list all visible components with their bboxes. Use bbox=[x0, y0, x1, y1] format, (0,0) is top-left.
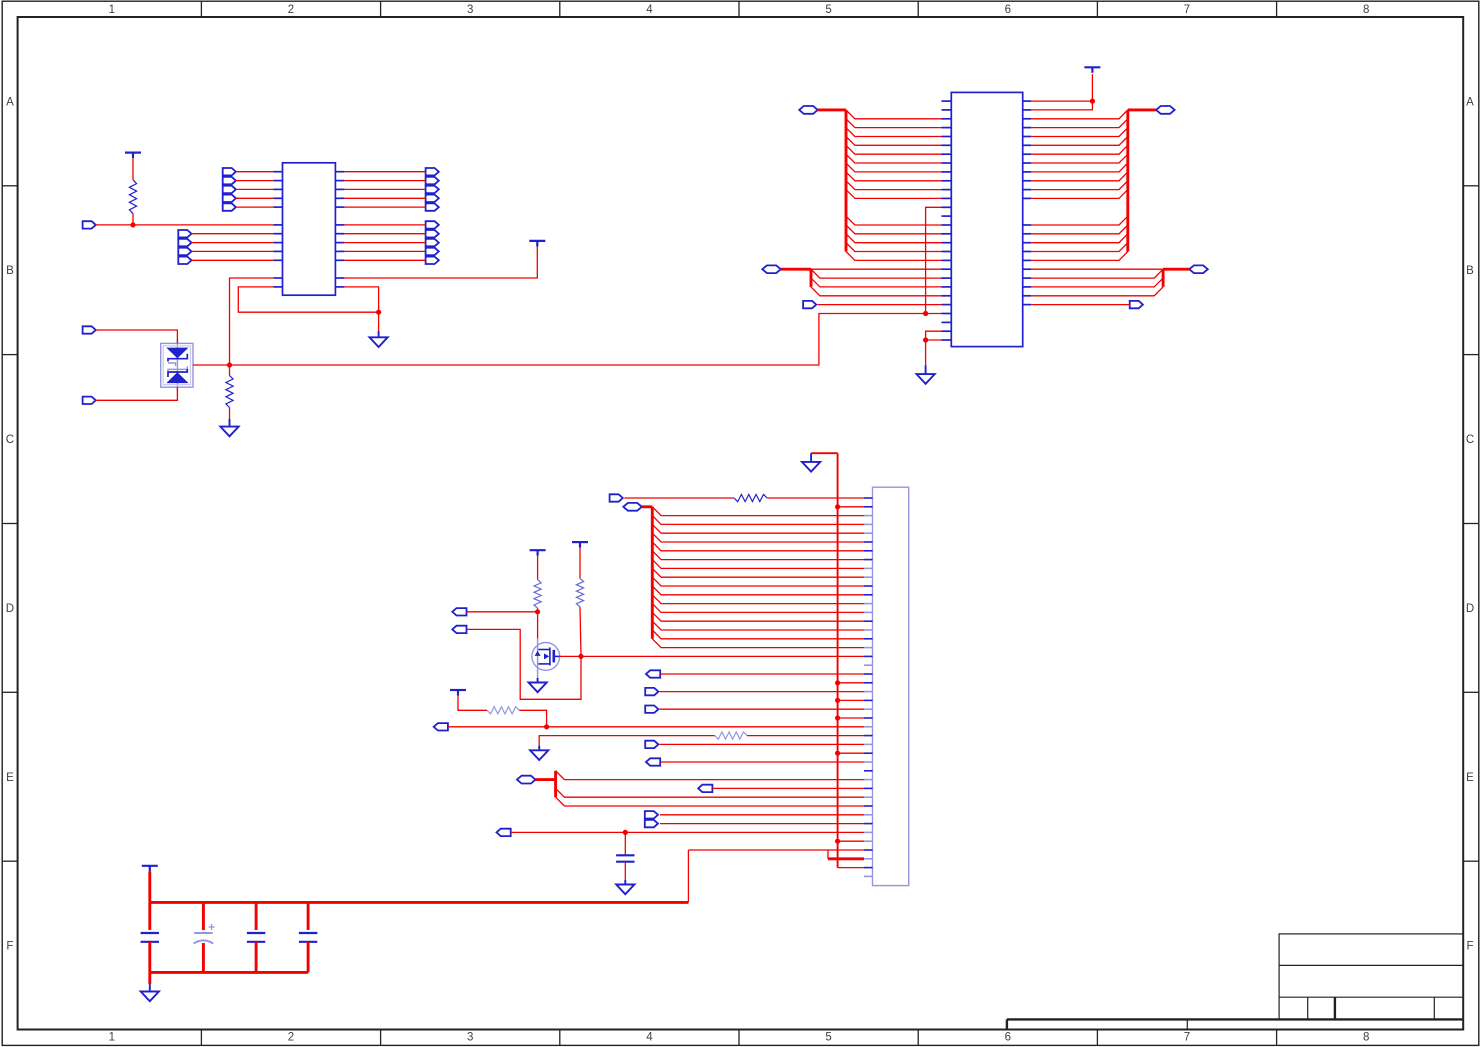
wire bbox=[652, 568, 864, 577]
wire bbox=[811, 278, 942, 287]
wire bbox=[660, 673, 864, 675]
U2 pin stubs bbox=[942, 101, 1032, 340]
svg-text:4: 4 bbox=[646, 1031, 653, 1043]
svg-text:F: F bbox=[1466, 941, 1473, 953]
wire bbox=[652, 639, 864, 648]
resistor R1 bbox=[129, 180, 136, 214]
output port bbox=[426, 195, 439, 202]
output port bbox=[646, 758, 660, 765]
output port bbox=[426, 168, 439, 175]
wire bbox=[767, 497, 864, 499]
wire bbox=[846, 181, 942, 190]
wire (long net to U2) bbox=[193, 314, 942, 366]
ground bbox=[530, 746, 548, 760]
ground bbox=[220, 419, 238, 436]
svg-text:D: D bbox=[1466, 603, 1474, 615]
input port bbox=[223, 177, 236, 184]
wire bbox=[838, 717, 864, 719]
wire bbox=[652, 507, 864, 516]
svg-text:6: 6 bbox=[1005, 1031, 1011, 1043]
wire bbox=[652, 595, 864, 604]
power symbol bbox=[450, 690, 466, 696]
wire (power bus) bbox=[150, 901, 689, 904]
row tick marks bbox=[2, 186, 1479, 861]
wire bbox=[712, 787, 864, 789]
wire bus (right bundle) bbox=[1128, 110, 1156, 252]
wire bbox=[846, 145, 942, 154]
svg-text:B: B bbox=[6, 265, 14, 277]
wire bbox=[96, 330, 178, 343]
wire bbox=[838, 506, 864, 508]
wire bbox=[652, 612, 864, 621]
wire bbox=[519, 710, 546, 727]
svg-text:6: 6 bbox=[1005, 4, 1011, 16]
output port bbox=[497, 829, 511, 836]
wire bbox=[747, 735, 864, 737]
input port bbox=[178, 239, 191, 246]
junction bbox=[544, 724, 549, 729]
output port bbox=[426, 221, 439, 228]
wire bbox=[132, 158, 134, 180]
wire bbox=[624, 497, 734, 499]
wire bbox=[192, 242, 274, 244]
wire bbox=[652, 533, 864, 542]
wire bbox=[687, 850, 689, 902]
capacitor C4 bbox=[299, 933, 317, 942]
svg-text:E: E bbox=[6, 772, 14, 784]
wire bbox=[96, 224, 274, 226]
U1 pin stubs bbox=[274, 172, 345, 287]
svg-text:3: 3 bbox=[467, 1031, 473, 1043]
svg-text:F: F bbox=[6, 941, 13, 953]
wire bus (vertical net) bbox=[837, 453, 839, 867]
wire (bus segment) bbox=[828, 857, 864, 860]
junction bbox=[1090, 99, 1095, 104]
svg-text:D: D bbox=[6, 603, 14, 615]
svg-text:8: 8 bbox=[1363, 4, 1369, 16]
input port bbox=[83, 397, 96, 404]
junction bbox=[578, 654, 583, 659]
wire bbox=[1031, 252, 1128, 261]
wire bbox=[838, 699, 864, 701]
power symbol bbox=[142, 866, 158, 872]
wire bus (left bundle) bbox=[818, 110, 846, 252]
wire bbox=[660, 743, 864, 745]
wire bbox=[846, 190, 942, 199]
bidir port bbox=[623, 503, 642, 511]
wire bbox=[624, 832, 626, 855]
input port bbox=[803, 301, 816, 308]
wire bbox=[96, 387, 178, 400]
capacitor C3 bbox=[247, 933, 265, 942]
wire bbox=[229, 408, 231, 420]
power symbol bbox=[530, 550, 546, 556]
wire bbox=[1031, 287, 1163, 296]
wire bbox=[467, 629, 582, 699]
output port bbox=[426, 239, 439, 246]
wire bbox=[236, 188, 274, 190]
output port bbox=[646, 670, 660, 677]
wire bbox=[344, 250, 425, 252]
wire bbox=[467, 611, 538, 613]
wire bus bbox=[810, 269, 813, 287]
resistor R5 bbox=[487, 707, 519, 714]
wire bbox=[236, 171, 274, 173]
wire bbox=[580, 607, 581, 657]
svg-text:4: 4 bbox=[646, 4, 653, 16]
wire bbox=[1031, 100, 1092, 102]
wire bbox=[1031, 304, 1129, 306]
wire bbox=[838, 840, 864, 842]
bidir port bbox=[1156, 106, 1175, 114]
input port bbox=[645, 706, 658, 713]
J1 pin stubs bbox=[864, 498, 873, 876]
wire bbox=[846, 216, 942, 225]
wire bbox=[537, 608, 539, 612]
junction bbox=[227, 362, 232, 367]
wire bbox=[537, 556, 539, 580]
wire bbox=[652, 551, 864, 560]
wire bbox=[846, 119, 942, 128]
IC U2 bbox=[951, 92, 1022, 346]
bidir port bbox=[1189, 265, 1208, 273]
power symbol bbox=[125, 153, 141, 159]
wire bbox=[926, 207, 942, 313]
wire bbox=[652, 621, 864, 630]
input port bbox=[610, 494, 623, 501]
svg-text:7: 7 bbox=[1184, 1031, 1190, 1043]
output port bbox=[1130, 301, 1143, 308]
wire bbox=[846, 172, 942, 181]
wire bbox=[1031, 190, 1128, 199]
wire bbox=[624, 862, 626, 881]
output port bbox=[426, 230, 439, 237]
bidir port bbox=[799, 106, 818, 114]
output port bbox=[426, 257, 439, 264]
wire bbox=[660, 708, 864, 710]
wire bbox=[652, 542, 864, 551]
wire bbox=[660, 761, 864, 763]
wire bbox=[344, 233, 425, 235]
wire bbox=[652, 524, 864, 533]
wire bbox=[132, 214, 134, 225]
wire bbox=[449, 726, 864, 728]
wire bbox=[818, 304, 942, 306]
wire bbox=[846, 128, 942, 137]
wire bbox=[556, 788, 864, 797]
wire bbox=[236, 180, 274, 182]
svg-text:2: 2 bbox=[288, 1031, 294, 1043]
svg-text:A: A bbox=[6, 96, 14, 108]
power symbol bbox=[1084, 67, 1100, 73]
svg-text:C: C bbox=[6, 434, 14, 446]
wire bbox=[846, 137, 942, 146]
junction bbox=[835, 839, 840, 844]
wire (ground bus) bbox=[150, 971, 308, 974]
wire bbox=[660, 691, 864, 693]
column tick marks top bbox=[201, 1, 1276, 1045]
transistor Q1 (MOSFET) bbox=[532, 639, 560, 680]
junction bbox=[835, 680, 840, 685]
wire bbox=[1031, 225, 1128, 234]
output port bbox=[426, 203, 439, 210]
output port bbox=[698, 785, 712, 792]
wire bbox=[811, 452, 838, 454]
wire bbox=[1091, 74, 1093, 101]
wire bbox=[344, 197, 425, 199]
junction bbox=[623, 830, 628, 835]
resistor R7 bbox=[734, 494, 767, 501]
wire bbox=[458, 696, 487, 711]
wire bbox=[828, 849, 864, 851]
wire bbox=[1031, 110, 1128, 119]
wire bbox=[344, 287, 378, 312]
wire bbox=[811, 268, 942, 270]
resistor R3 bbox=[534, 580, 541, 609]
svg-text:5: 5 bbox=[825, 4, 831, 16]
wire bbox=[202, 902, 205, 930]
wire bbox=[192, 259, 274, 261]
wire bbox=[1031, 243, 1128, 252]
input port bbox=[223, 186, 236, 193]
output port bbox=[426, 248, 439, 255]
wire bbox=[838, 682, 864, 684]
wire bbox=[660, 814, 864, 816]
wire bbox=[229, 365, 231, 375]
wire bbox=[846, 234, 942, 243]
ground bbox=[141, 984, 159, 1001]
wire bbox=[688, 850, 828, 859]
wire bbox=[236, 206, 274, 208]
wire bbox=[1031, 137, 1128, 146]
capacitor C1 bbox=[141, 933, 159, 942]
wire bbox=[1031, 119, 1128, 128]
ground bbox=[370, 331, 388, 347]
wire bbox=[926, 331, 942, 340]
wire bus bbox=[1162, 269, 1165, 287]
power symbol bbox=[529, 241, 545, 247]
wire bbox=[1031, 181, 1128, 190]
output port bbox=[426, 186, 439, 193]
wire bbox=[556, 771, 864, 780]
junction bbox=[835, 751, 840, 756]
svg-text:2: 2 bbox=[288, 4, 294, 16]
wire bbox=[238, 287, 378, 312]
svg-text:7: 7 bbox=[1184, 4, 1190, 16]
wire bbox=[537, 612, 539, 639]
wire bbox=[148, 942, 151, 973]
svg-text:1: 1 bbox=[109, 1031, 115, 1043]
junction bbox=[835, 698, 840, 703]
wire bbox=[838, 867, 864, 869]
wire bbox=[344, 171, 425, 173]
resistor R2 bbox=[226, 375, 233, 407]
wire bbox=[1031, 269, 1163, 278]
svg-text:8: 8 bbox=[1363, 1031, 1369, 1043]
input port bbox=[83, 326, 96, 333]
ground bbox=[529, 678, 547, 692]
wire bbox=[811, 287, 942, 296]
junction bbox=[923, 311, 928, 316]
wire bbox=[255, 902, 258, 930]
wire bbox=[202, 943, 205, 972]
output port bbox=[452, 608, 466, 615]
wire bus bbox=[554, 771, 557, 797]
wire bbox=[536, 778, 556, 781]
wire bbox=[652, 577, 864, 586]
wire bus bbox=[642, 505, 653, 508]
input port bbox=[178, 257, 191, 264]
wire bbox=[344, 188, 425, 190]
wire bbox=[811, 269, 942, 278]
svg-text:1: 1 bbox=[109, 4, 115, 16]
output port bbox=[452, 626, 466, 633]
wire bbox=[1031, 172, 1128, 181]
wire bbox=[378, 312, 380, 331]
junction bbox=[535, 609, 540, 614]
bidir port bbox=[762, 265, 781, 273]
junction bbox=[835, 504, 840, 509]
resistor R4 bbox=[576, 578, 583, 607]
input port bbox=[645, 811, 658, 818]
wire bbox=[307, 902, 310, 930]
wire bbox=[236, 197, 274, 199]
wire bbox=[652, 630, 864, 639]
capacitor C2 (polarized) bbox=[194, 924, 215, 944]
wire bbox=[344, 245, 537, 278]
wire bbox=[652, 516, 864, 525]
junction bbox=[835, 715, 840, 720]
wire bbox=[307, 942, 310, 973]
wire bbox=[192, 250, 274, 252]
wire bbox=[148, 972, 151, 984]
wire bbox=[556, 797, 864, 806]
connector J1 bbox=[873, 487, 909, 885]
junction bbox=[923, 337, 928, 342]
input port bbox=[223, 203, 236, 210]
wire bbox=[344, 206, 425, 208]
input port bbox=[223, 195, 236, 202]
svg-text:B: B bbox=[1466, 265, 1474, 277]
diode D1 (TVS) bbox=[161, 340, 193, 392]
wire bbox=[846, 225, 942, 234]
wire bbox=[781, 268, 811, 271]
wire bbox=[652, 604, 864, 613]
wire bbox=[1031, 154, 1128, 163]
wire bbox=[846, 252, 942, 261]
input port bbox=[645, 688, 658, 695]
ground bbox=[616, 880, 634, 894]
svg-text:E: E bbox=[1466, 772, 1474, 784]
wire bbox=[539, 736, 715, 747]
input port bbox=[83, 221, 96, 228]
svg-text:C: C bbox=[1466, 434, 1474, 446]
wire bbox=[925, 340, 927, 365]
wire bbox=[846, 154, 942, 163]
ground bbox=[802, 453, 820, 471]
junction bbox=[130, 222, 135, 227]
wire bbox=[148, 902, 151, 930]
input port bbox=[178, 230, 191, 237]
wire bbox=[838, 752, 864, 754]
input port bbox=[645, 741, 658, 748]
wire bbox=[846, 163, 942, 172]
wire bbox=[1031, 145, 1128, 154]
wire bbox=[846, 243, 942, 252]
capacitor C5 bbox=[616, 855, 634, 861]
wire bbox=[1163, 268, 1189, 271]
wire bbox=[1031, 101, 1092, 110]
wire bbox=[344, 242, 425, 244]
ground bbox=[917, 365, 935, 384]
wire (drain to J1) bbox=[560, 655, 864, 657]
svg-text:3: 3 bbox=[467, 4, 473, 16]
svg-text:A: A bbox=[1466, 96, 1474, 108]
output port bbox=[426, 177, 439, 184]
junction bbox=[376, 310, 381, 315]
wire bbox=[344, 224, 425, 226]
wire bbox=[148, 871, 151, 902]
wire bbox=[1031, 268, 1163, 270]
wire bbox=[1031, 278, 1163, 287]
resistor R6 bbox=[715, 732, 747, 739]
input port bbox=[223, 168, 236, 175]
wire bbox=[344, 259, 425, 261]
title block bbox=[1007, 934, 1463, 1030]
wire bbox=[579, 548, 581, 579]
wire bbox=[255, 942, 258, 973]
wire bbox=[192, 233, 274, 235]
wire bbox=[652, 560, 864, 569]
wire bbox=[660, 823, 864, 825]
wire bbox=[1031, 163, 1128, 172]
power symbol bbox=[572, 542, 588, 548]
IC U1 bbox=[283, 163, 336, 295]
wire bus bbox=[651, 507, 654, 639]
bidir port bbox=[517, 776, 536, 784]
output port bbox=[434, 723, 448, 730]
wire bbox=[846, 110, 942, 119]
wire bbox=[1031, 234, 1128, 243]
input port bbox=[178, 248, 191, 255]
wire bbox=[1031, 128, 1128, 137]
wire bbox=[652, 586, 864, 595]
input port bbox=[645, 820, 658, 827]
wire bbox=[1031, 216, 1128, 225]
wire bbox=[344, 180, 425, 182]
wire bbox=[511, 831, 864, 833]
wire bbox=[230, 278, 274, 365]
svg-text:5: 5 bbox=[825, 1031, 831, 1043]
